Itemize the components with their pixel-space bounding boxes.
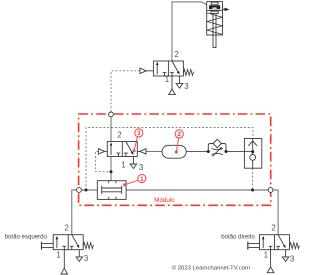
module boundary box (red dash-dot) bbox=[79, 114, 271, 205]
annotation circle 2 bbox=[175, 130, 184, 154]
cylinder A1 (single-acting, vertical, spring return) bbox=[207, 2, 223, 48]
wire: reservoir to throttle bbox=[186, 151, 208, 153]
junction nodes of D1 bypass bbox=[207, 150, 210, 153]
svg-text:botão direito: botão direito bbox=[221, 234, 255, 241]
valve V4: 3/2 push-button valve (botao esquerdo) bbox=[42, 235, 94, 274]
svg-text:2: 2 bbox=[64, 224, 69, 233]
wire: throttle to check valve C1 bbox=[226, 151, 253, 153]
spring of V2 bbox=[183, 69, 193, 75]
svg-text:1: 1 bbox=[165, 75, 170, 84]
supply source under V5 bbox=[270, 250, 272, 267]
annotation circle 3 bbox=[132, 129, 143, 153]
right pilot actuator of V3 bbox=[140, 149, 146, 154]
valve V5: 3/2 push-button valve (botao direito) bbox=[248, 235, 299, 273]
valve V2: 3/2 pilot valve, spring return (top) bbox=[140, 61, 194, 95]
wire: pilot rail valve V3 to reservoir bbox=[146, 150, 162, 152]
module port circle (top) bbox=[109, 112, 114, 117]
junction node on V3 port-1 line bbox=[110, 170, 113, 173]
svg-text:© 2023 Learnchannel-TV.com: © 2023 Learnchannel-TV.com bbox=[172, 265, 250, 272]
exhaust under V3 port 3 bbox=[132, 157, 134, 165]
wire: left bus segment from circle to K1 bbox=[81, 189, 97, 191]
port labels of V3 bbox=[117, 131, 144, 172]
svg-text:2: 2 bbox=[174, 50, 179, 59]
wire: valve V2 output 2 up to cylinder bbox=[172, 2, 207, 61]
svg-text:3: 3 bbox=[184, 82, 189, 91]
exhaust under V2 port 3 bbox=[179, 76, 181, 84]
pilot line (dashed) self-holding loop to left pilot of V3 bbox=[95, 151, 111, 171]
reservoir Z1 (air volume capsule) bbox=[162, 145, 186, 158]
junction node in C1 bbox=[251, 150, 254, 153]
wire: left port circle down to valve V4 port 2 bbox=[72, 190, 77, 235]
svg-text:Módulo: Módulo bbox=[154, 197, 175, 204]
push button of V4 bbox=[42, 244, 53, 248]
svg-text:1: 1 bbox=[56, 250, 61, 259]
exhaust under V5 port 3 bbox=[285, 250, 287, 257]
pilot line (dashed) from check valve C1 down to bus bbox=[252, 168, 254, 190]
junction node where check valve line meets bus (right) bbox=[251, 189, 254, 192]
module port circle (left) bbox=[77, 188, 82, 193]
supply source under V2 bbox=[171, 76, 173, 89]
port labels of V5 bbox=[264, 224, 295, 264]
one-way flow control valve D1 bbox=[208, 139, 226, 156]
wire: valve V3 port 1 down to AND valve K1 bbox=[110, 157, 112, 181]
cylinder motion arrow bbox=[223, 8, 230, 12]
two-pressure valve K1 (AND) bbox=[97, 181, 126, 200]
svg-text:2: 2 bbox=[178, 131, 182, 138]
supply source under V4 bbox=[63, 250, 65, 269]
valve V3: 3/2 double pilot valve (in module) bbox=[98, 142, 146, 169]
svg-text:1: 1 bbox=[140, 176, 144, 183]
svg-text:3: 3 bbox=[290, 254, 295, 263]
pilot line (dashed) from module port to valve V2 bbox=[111, 71, 140, 112]
spring of V4 bbox=[83, 243, 93, 249]
port labels of V2 bbox=[165, 50, 190, 91]
svg-text:1: 1 bbox=[264, 250, 269, 259]
svg-text:3: 3 bbox=[139, 163, 144, 172]
left pilot actuator of V3 bbox=[98, 149, 104, 154]
svg-text:botão esquerdo: botão esquerdo bbox=[5, 233, 48, 240]
wire: right bus segment from K1 to right port circle bbox=[126, 189, 268, 191]
svg-text:3: 3 bbox=[137, 130, 141, 137]
module port circle (right) bbox=[268, 188, 273, 193]
wire: module top port down to valve V3 port 2 bbox=[110, 117, 112, 142]
exhaust under V4 port 3 bbox=[78, 250, 80, 257]
port labels of V4 bbox=[56, 224, 88, 264]
pilot actuator of V2 bbox=[140, 68, 146, 74]
svg-text:2: 2 bbox=[271, 224, 276, 233]
wire: right port circle down to valve V5 port 2 bbox=[273, 190, 278, 235]
spring of V5 bbox=[290, 243, 300, 249]
push button of V5 bbox=[249, 244, 260, 248]
check valve C1 (pilot-operated, in box) bbox=[244, 139, 261, 169]
svg-text:3: 3 bbox=[84, 254, 89, 263]
annotation circle 1 bbox=[123, 174, 146, 186]
svg-text:2: 2 bbox=[117, 131, 122, 140]
pilot line (dashed) from AND-net junction up over to check valve C1 bbox=[86, 128, 253, 190]
junction node where dashed pilot taps bus (left) bbox=[85, 189, 88, 192]
svg-text:1: 1 bbox=[121, 160, 126, 169]
